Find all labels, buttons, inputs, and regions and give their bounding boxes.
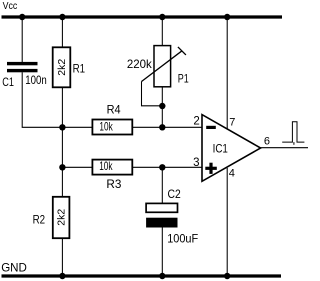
node: net A P1 junction bbox=[159, 124, 165, 130]
non-inverting input plus sign bbox=[205, 167, 217, 170]
svg-text:7: 7 bbox=[229, 117, 235, 129]
svg-text:IC1: IC1 bbox=[213, 142, 229, 156]
svg-text:100uF: 100uF bbox=[167, 231, 198, 245]
wire: C2 bottom lead bbox=[161, 227, 163, 276]
P1 wiper arrow head bar bbox=[178, 47, 186, 55]
capacitor C1 bbox=[2, 62, 47, 89]
resistor R3 bbox=[92, 159, 132, 191]
wire: output from pin 6 bbox=[261, 147, 309, 149]
node: Vcc-R1 junction bbox=[59, 14, 65, 20]
wire: C1 bottom lead and net A to pin 2 bbox=[22, 72, 202, 127]
node: Vcc-C1 junction bbox=[19, 14, 25, 20]
node: P1 wiper junction bbox=[159, 103, 165, 109]
inverting input minus sign bbox=[206, 126, 216, 129]
svg-text:GND: GND bbox=[1, 261, 27, 275]
resistor R2 bbox=[33, 197, 70, 238]
svg-text:2: 2 bbox=[193, 116, 199, 128]
node: Vcc-P1 junction bbox=[159, 14, 165, 20]
node: GND-C2 junction bbox=[159, 273, 165, 279]
svg-text:2k2: 2k2 bbox=[56, 209, 68, 226]
svg-text:2k2: 2k2 bbox=[56, 59, 68, 76]
wire: P1 branch from Vcc rail down to net A bbox=[161, 17, 163, 127]
svg-text:4: 4 bbox=[229, 168, 235, 180]
wire: pin 7 lead from Vcc rail bbox=[226, 17, 228, 129]
svg-text:R3: R3 bbox=[106, 177, 121, 191]
svg-text:R1: R1 bbox=[73, 64, 86, 76]
resistor R4 bbox=[92, 103, 132, 135]
svg-text:10k: 10k bbox=[99, 159, 113, 173]
node: GND-pin4 junction bbox=[224, 273, 230, 279]
svg-text:100n: 100n bbox=[25, 73, 47, 87]
svg-text:10k: 10k bbox=[99, 120, 113, 134]
P1 wiper diagonal arrow bbox=[142, 51, 183, 82]
op-amp IC1 bbox=[193, 115, 270, 182]
wire: net B from bus to pin 3 bbox=[62, 166, 202, 168]
node: net B C2 junction bbox=[159, 164, 165, 170]
svg-text:P1: P1 bbox=[178, 73, 189, 85]
output pulse symbol bbox=[282, 122, 304, 145]
potentiometer P1 bbox=[127, 46, 189, 106]
svg-text:C1: C1 bbox=[2, 75, 14, 89]
wire: C1 top lead bbox=[21, 17, 23, 62]
svg-text:220k: 220k bbox=[127, 57, 153, 71]
svg-text:R4: R4 bbox=[107, 103, 121, 117]
wire: C2 top lead bbox=[161, 167, 163, 204]
node: GND-R2 junction bbox=[59, 273, 65, 279]
node: net A bus junction bbox=[59, 124, 65, 130]
svg-text:R2: R2 bbox=[33, 214, 46, 226]
svg-text:3: 3 bbox=[193, 157, 199, 169]
svg-text:6: 6 bbox=[264, 136, 270, 148]
P1 wiper arm L-wire bbox=[142, 82, 163, 106]
wire: vertical bus x=62 (R1/R2 branch) bbox=[61, 17, 63, 276]
node: net B bus junction bbox=[59, 164, 65, 170]
capacitor C2 (electrolytic) bbox=[146, 187, 198, 245]
wire: pin 4 lead to GND rail bbox=[226, 168, 228, 276]
wire: GND rail bbox=[2, 274, 282, 277]
wire: Vcc rail bbox=[2, 15, 283, 18]
resistor R1 bbox=[53, 47, 85, 87]
svg-text:Vcc: Vcc bbox=[3, 1, 18, 12]
svg-text:C2: C2 bbox=[168, 187, 181, 201]
node: Vcc-pin7 junction bbox=[224, 14, 230, 20]
